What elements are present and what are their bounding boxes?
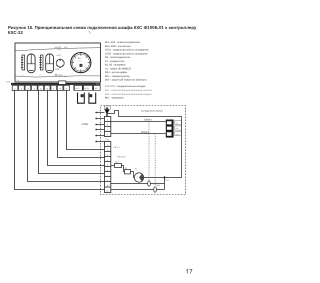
svg-text:КА1 - исполнительный механизм: КА1 - исполнительный механизм клапана xyxy=(105,89,153,92)
svg-text:Чер: Чер xyxy=(176,133,179,136)
svg-text:SК1 - терморегулятор: SК1 - терморегулятор xyxy=(105,75,130,78)
svg-text:SQ1 - датчик двери: SQ1 - датчик двери xyxy=(105,71,128,74)
svg-text:7: 7 xyxy=(107,174,108,177)
svg-text:РУЧ: РУЧ xyxy=(75,87,78,90)
svg-text:(24В): (24В) xyxy=(57,48,62,51)
svg-text:СЕТЬ: СЕТЬ xyxy=(57,74,63,77)
svg-text:9: 9 xyxy=(107,185,108,188)
svg-text:БЛОК-1: БЛОК-1 xyxy=(144,119,153,122)
svg-text:5: 5 xyxy=(107,164,108,167)
svg-text:ЦУП: ЦУП xyxy=(57,54,62,57)
svg-text:Рисунок 16. Принципиальная схе: Рисунок 16. Принципиальная схема подключ… xyxy=(8,25,197,30)
svg-text:КА3 - исполнительный механизм: КА3 - исполнительный механизм воздуха xyxy=(105,93,152,96)
svg-text:Бел: Бел xyxy=(176,127,179,130)
svg-text:АВТ: АВТ xyxy=(95,87,98,90)
svg-text:8: 8 xyxy=(107,180,108,183)
svg-text:2: 2 xyxy=(107,124,108,127)
svg-text:1: 1 xyxy=(107,144,108,147)
svg-text:4: 4 xyxy=(107,134,108,137)
svg-text:ХТ1-ХТ4 - соединительные колод: ХТ1-ХТ4 - соединительные колодки xyxy=(105,85,146,88)
svg-text:10: 10 xyxy=(106,189,108,192)
svg-text:ХВ - электродвигатель: ХВ - электродвигатель xyxy=(105,56,131,59)
svg-text:ЕК1, ЕК2 - электронагреватели: ЕК1, ЕК2 - электронагреватели xyxy=(105,41,141,44)
svg-text:Кр: Кр xyxy=(176,122,178,125)
svg-text:3: 3 xyxy=(107,154,108,157)
svg-text:С1 - конденсатор: С1 - конденсатор xyxy=(105,60,125,63)
svg-text:24ч: 24ч xyxy=(64,75,67,78)
svg-text:ВК1 - термометр: ВК1 - термометр xyxy=(105,97,124,100)
svg-text:ХВ 3-1: ХВ 3-1 xyxy=(114,146,121,149)
svg-text:3: 3 xyxy=(107,129,108,132)
svg-text:~220В: ~220В xyxy=(81,123,89,126)
svg-text:SК2 - защитный термостат (безк: SК2 - защитный термостат (безкорп.) xyxy=(105,79,147,82)
svg-text:1: 1 xyxy=(107,118,108,121)
svg-text:LED2 - индикатор работы нагрев: LED2 - индикатор работы нагревания xyxy=(105,52,148,55)
svg-text:LED1 - индикатор работы охлажд: LED1 - индикатор работы охлаждения xyxy=(105,49,149,52)
svg-text:ЧЕР.ОБЛ: ЧЕР.ОБЛ xyxy=(117,155,126,158)
svg-text:Л1 - лампа ЛБ-У80БС3: Л1 - лампа ЛБ-У80БС3 xyxy=(105,67,132,70)
svg-text:Холодильная камера: Холодильная камера xyxy=(141,110,163,113)
svg-text:В1, В2 - выпрямит.: В1, В2 - выпрямит. xyxy=(105,64,127,67)
svg-text:2: 2 xyxy=(107,149,108,152)
svg-text:СКВ: СКВ xyxy=(55,68,60,71)
svg-text:4: 4 xyxy=(107,159,108,162)
svg-text:КХС-32: КХС-32 xyxy=(8,30,23,35)
svg-text:6: 6 xyxy=(107,169,108,172)
svg-text:БЛОК-2: БЛОК-2 xyxy=(141,131,150,134)
svg-text:КМ1, КМ2 - контакторы: КМ1, КМ2 - контакторы xyxy=(105,45,131,48)
